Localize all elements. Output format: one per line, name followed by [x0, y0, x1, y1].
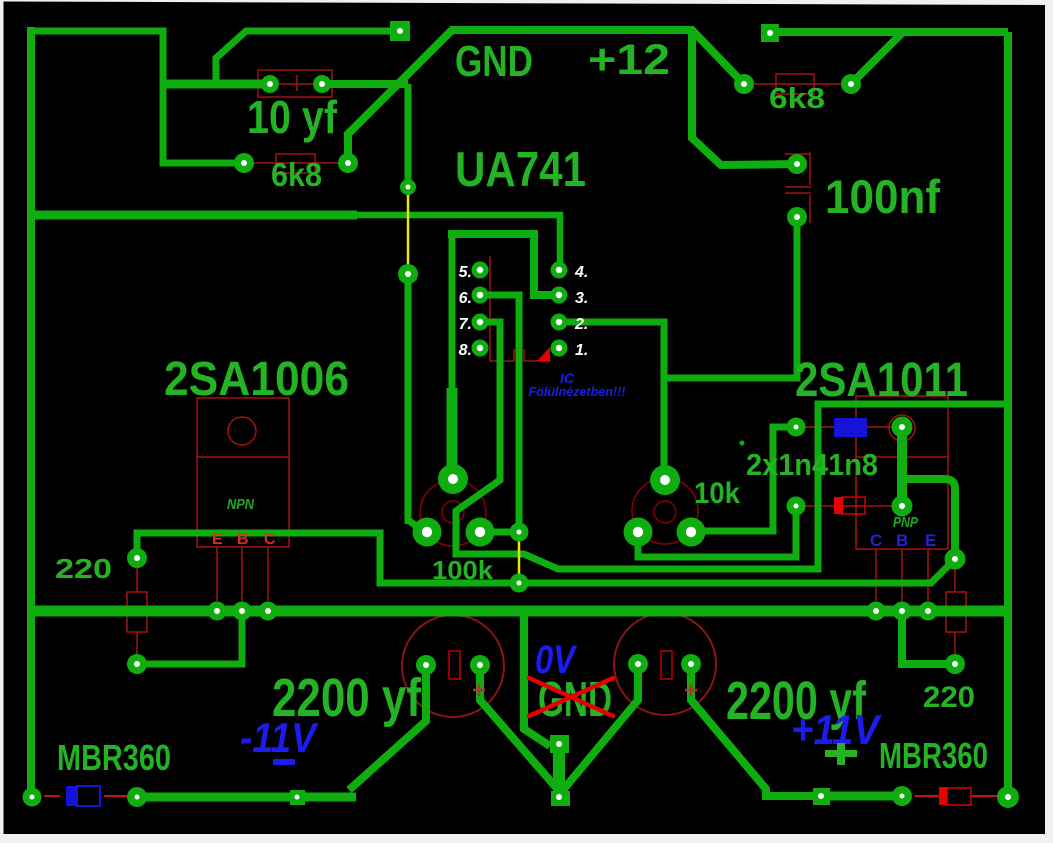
- svg-text:E: E: [212, 531, 223, 548]
- svg-text:E: E: [925, 531, 936, 550]
- svg-text:PNP: PNP: [893, 514, 919, 531]
- svg-text:100nf: 100nf: [825, 170, 940, 223]
- svg-text:0V: 0V: [535, 638, 578, 682]
- svg-text:+11V: +11V: [791, 706, 882, 753]
- svg-text:2.: 2.: [574, 316, 588, 333]
- svg-text:6k8: 6k8: [769, 83, 825, 115]
- svg-text:B: B: [896, 531, 908, 550]
- svg-text:+12: +12: [588, 36, 670, 84]
- svg-text:NPN: NPN: [227, 496, 255, 513]
- svg-text:MBR360: MBR360: [57, 737, 171, 778]
- svg-text:2SA1011: 2SA1011: [795, 354, 968, 407]
- svg-text:Fölülnézetben!!!: Fölülnézetben!!!: [529, 384, 627, 399]
- svg-text:100k: 100k: [432, 555, 494, 585]
- svg-text:220: 220: [923, 681, 975, 714]
- svg-text:C: C: [264, 531, 276, 548]
- svg-text:6.: 6.: [459, 290, 472, 307]
- svg-text:10 yf: 10 yf: [247, 91, 338, 143]
- svg-text:2x1n41n8: 2x1n41n8: [746, 447, 878, 482]
- svg-text:UA741: UA741: [455, 143, 586, 197]
- svg-text:MBR360: MBR360: [879, 735, 988, 776]
- svg-text:C: C: [870, 531, 882, 550]
- svg-text:1.: 1.: [575, 342, 588, 359]
- svg-text:10k: 10k: [694, 477, 740, 510]
- svg-text:B: B: [237, 531, 249, 548]
- svg-text:GND: GND: [455, 37, 533, 86]
- svg-text:7.: 7.: [459, 316, 472, 333]
- svg-text:-11V: -11V: [240, 714, 319, 761]
- svg-text:4.: 4.: [574, 264, 588, 281]
- svg-text:5.: 5.: [459, 264, 472, 281]
- svg-text:3.: 3.: [575, 290, 588, 307]
- svg-text:6k8: 6k8: [271, 156, 322, 193]
- svg-text:2SA1006: 2SA1006: [164, 353, 349, 406]
- svg-text:8.: 8.: [459, 342, 472, 359]
- svg-text:220: 220: [55, 553, 112, 584]
